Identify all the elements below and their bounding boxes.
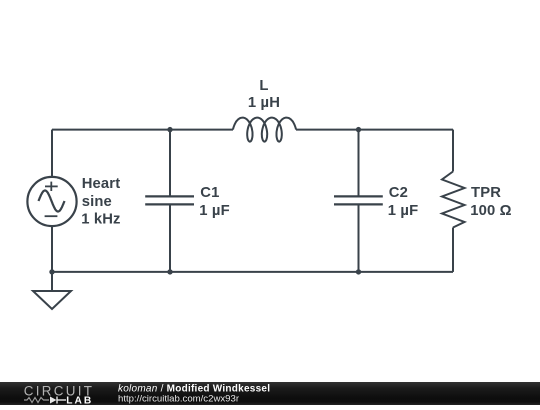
- svg-text:1 µF: 1 µF: [199, 203, 230, 219]
- voltage source V1 minus sign: [45, 215, 58, 217]
- voltage source V1 plus sign: [45, 182, 58, 191]
- wire C2 bottom lead: [358, 204, 360, 272]
- inductor L coil: [233, 118, 296, 142]
- wire ground stub: [51, 272, 53, 291]
- svg-text:1 kHz: 1 kHz: [81, 212, 120, 228]
- wire left column top (source top lead): [51, 130, 53, 177]
- capacitor C1 plates: [145, 196, 194, 204]
- svg-text:L: L: [259, 78, 268, 94]
- voltage source V1 sine waveform: [39, 191, 65, 212]
- svg-text:C2: C2: [389, 185, 408, 201]
- svg-text:1 µH: 1 µH: [248, 95, 280, 111]
- wire left column bottom (source bottom lead): [51, 226, 53, 272]
- svg-text:1 µF: 1 µF: [388, 203, 419, 219]
- wire TPR top lead: [452, 130, 454, 172]
- svg-text:100 Ω: 100 Ω: [470, 203, 511, 219]
- wire C1 top lead: [169, 130, 171, 197]
- junction node top C2: [356, 127, 361, 132]
- wire top rail left (source to inductor): [52, 129, 233, 131]
- ground symbol: [33, 291, 71, 309]
- wire top rail right (inductor to TPR): [296, 129, 453, 131]
- wire bottom rail: [52, 271, 453, 273]
- wire TPR bottom lead: [452, 228, 454, 272]
- svg-text:Heart: Heart: [82, 176, 121, 192]
- junction node bottom C2: [356, 269, 361, 274]
- voltage source V1 Heart sine circle: [27, 177, 76, 226]
- wire C2 top lead: [358, 130, 360, 197]
- junction node bottom C1: [167, 269, 172, 274]
- svg-text:TPR: TPR: [471, 185, 501, 201]
- junction node top C1: [167, 127, 172, 132]
- junction node bottom source: [49, 269, 54, 274]
- svg-text:http://circuitlab.com/c2wx93r: http://circuitlab.com/c2wx93r: [118, 394, 240, 405]
- resistor TPR zigzag: [442, 172, 465, 228]
- svg-text:LAB: LAB: [66, 395, 93, 405]
- wire C1 bottom lead: [169, 204, 171, 272]
- CircuitLab logo resistor-diode glyph: [24, 398, 49, 403]
- svg-text:C1: C1: [200, 185, 219, 201]
- capacitor C2 plates: [334, 196, 383, 204]
- svg-text:sine: sine: [82, 194, 112, 210]
